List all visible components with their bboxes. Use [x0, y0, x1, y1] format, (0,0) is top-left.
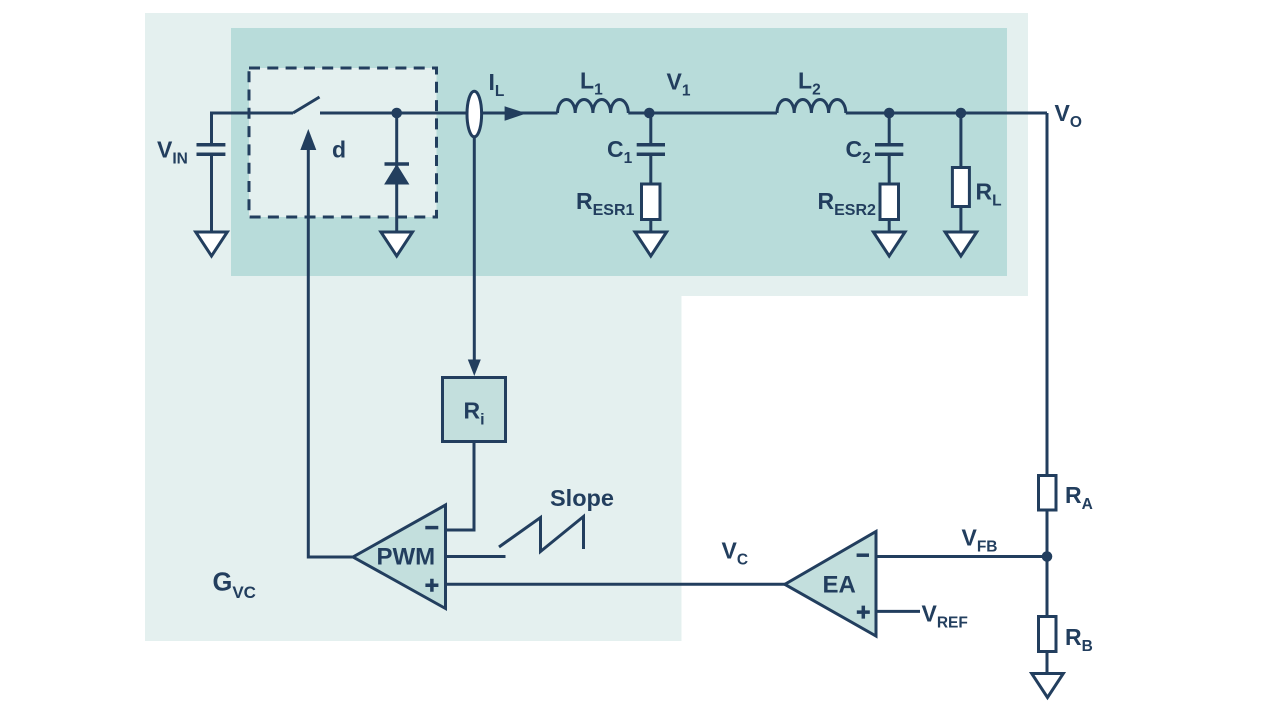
current sensor: [467, 91, 482, 137]
VFB wire: [877, 555, 1047, 558]
RB to ground wire: [1046, 652, 1049, 675]
C1 branch wires: [649, 113, 652, 233]
L1 inductor: [558, 99, 629, 113]
RL branch wires: [959, 113, 962, 232]
ground RB: [1032, 674, 1064, 698]
diode branch wire: [395, 113, 398, 232]
wire VIN bottom: [210, 156, 213, 234]
node A (switch/diode): [391, 108, 402, 119]
node VFB: [1042, 551, 1053, 562]
svg-text:EA: EA: [823, 572, 856, 599]
dashed switch box: [249, 68, 437, 217]
ground VIN: [196, 232, 228, 256]
PWM middle stub: [446, 555, 506, 558]
PWM minus sign: [425, 526, 438, 530]
PWM plus sign: [425, 579, 438, 592]
resistor RL: [952, 168, 969, 207]
diode cathode bar: [385, 162, 410, 166]
power stage dark teal region: [231, 28, 1007, 276]
wire L1 to L2: [628, 112, 777, 115]
PWM plus / EA output wire: [446, 583, 786, 586]
svg-text:Slope: Slope: [550, 485, 614, 511]
EA plus stub to VREF: [877, 610, 920, 613]
EA minus sign: [857, 553, 869, 557]
ground RESR1: [635, 232, 667, 256]
node V1: [644, 108, 655, 119]
C1 plates: [637, 145, 665, 155]
Gvc light teal L-shaped region: [145, 13, 1028, 641]
Ri block: [443, 378, 506, 442]
C2 plates: [875, 145, 903, 155]
resistor RESR1: [642, 184, 661, 220]
svg-text:PWM: PWM: [377, 544, 436, 571]
sensor tail wire: [473, 136, 476, 362]
ground RESR2: [873, 232, 905, 256]
L2 inductor: [777, 99, 846, 113]
d arrowhead: [300, 129, 316, 150]
slope sawtooth: [499, 517, 584, 552]
ground RL: [945, 232, 977, 256]
C2 branch wires: [888, 113, 891, 233]
diode D1: [385, 165, 409, 184]
wire switch to L1: [320, 112, 558, 115]
VIN capacitor plates: [197, 145, 904, 164]
op-amp EA error amplifier: [785, 532, 876, 637]
Ri to PWM minus wire: [446, 442, 475, 531]
wire VIN top: [212, 113, 294, 144]
switch lever: [293, 97, 320, 113]
EA plus sign: [857, 606, 870, 619]
RA to RB wire: [1046, 510, 1049, 617]
resistor RB: [1039, 617, 1057, 652]
op-amp PWM comparator: [353, 505, 446, 609]
IL arrow: [505, 106, 527, 121]
node RL: [956, 108, 967, 119]
d feedback wire: [308, 148, 353, 557]
node C2: [884, 108, 895, 119]
resistor RA: [1039, 476, 1057, 511]
sensor arrowhead into Ri: [468, 360, 481, 377]
wire Vo down to RA: [1046, 113, 1049, 476]
wire L2 to Vo corner: [846, 112, 1047, 115]
resistor RESR2: [880, 184, 899, 220]
svg-text:d: d: [332, 137, 346, 163]
ground diode: [381, 232, 413, 256]
